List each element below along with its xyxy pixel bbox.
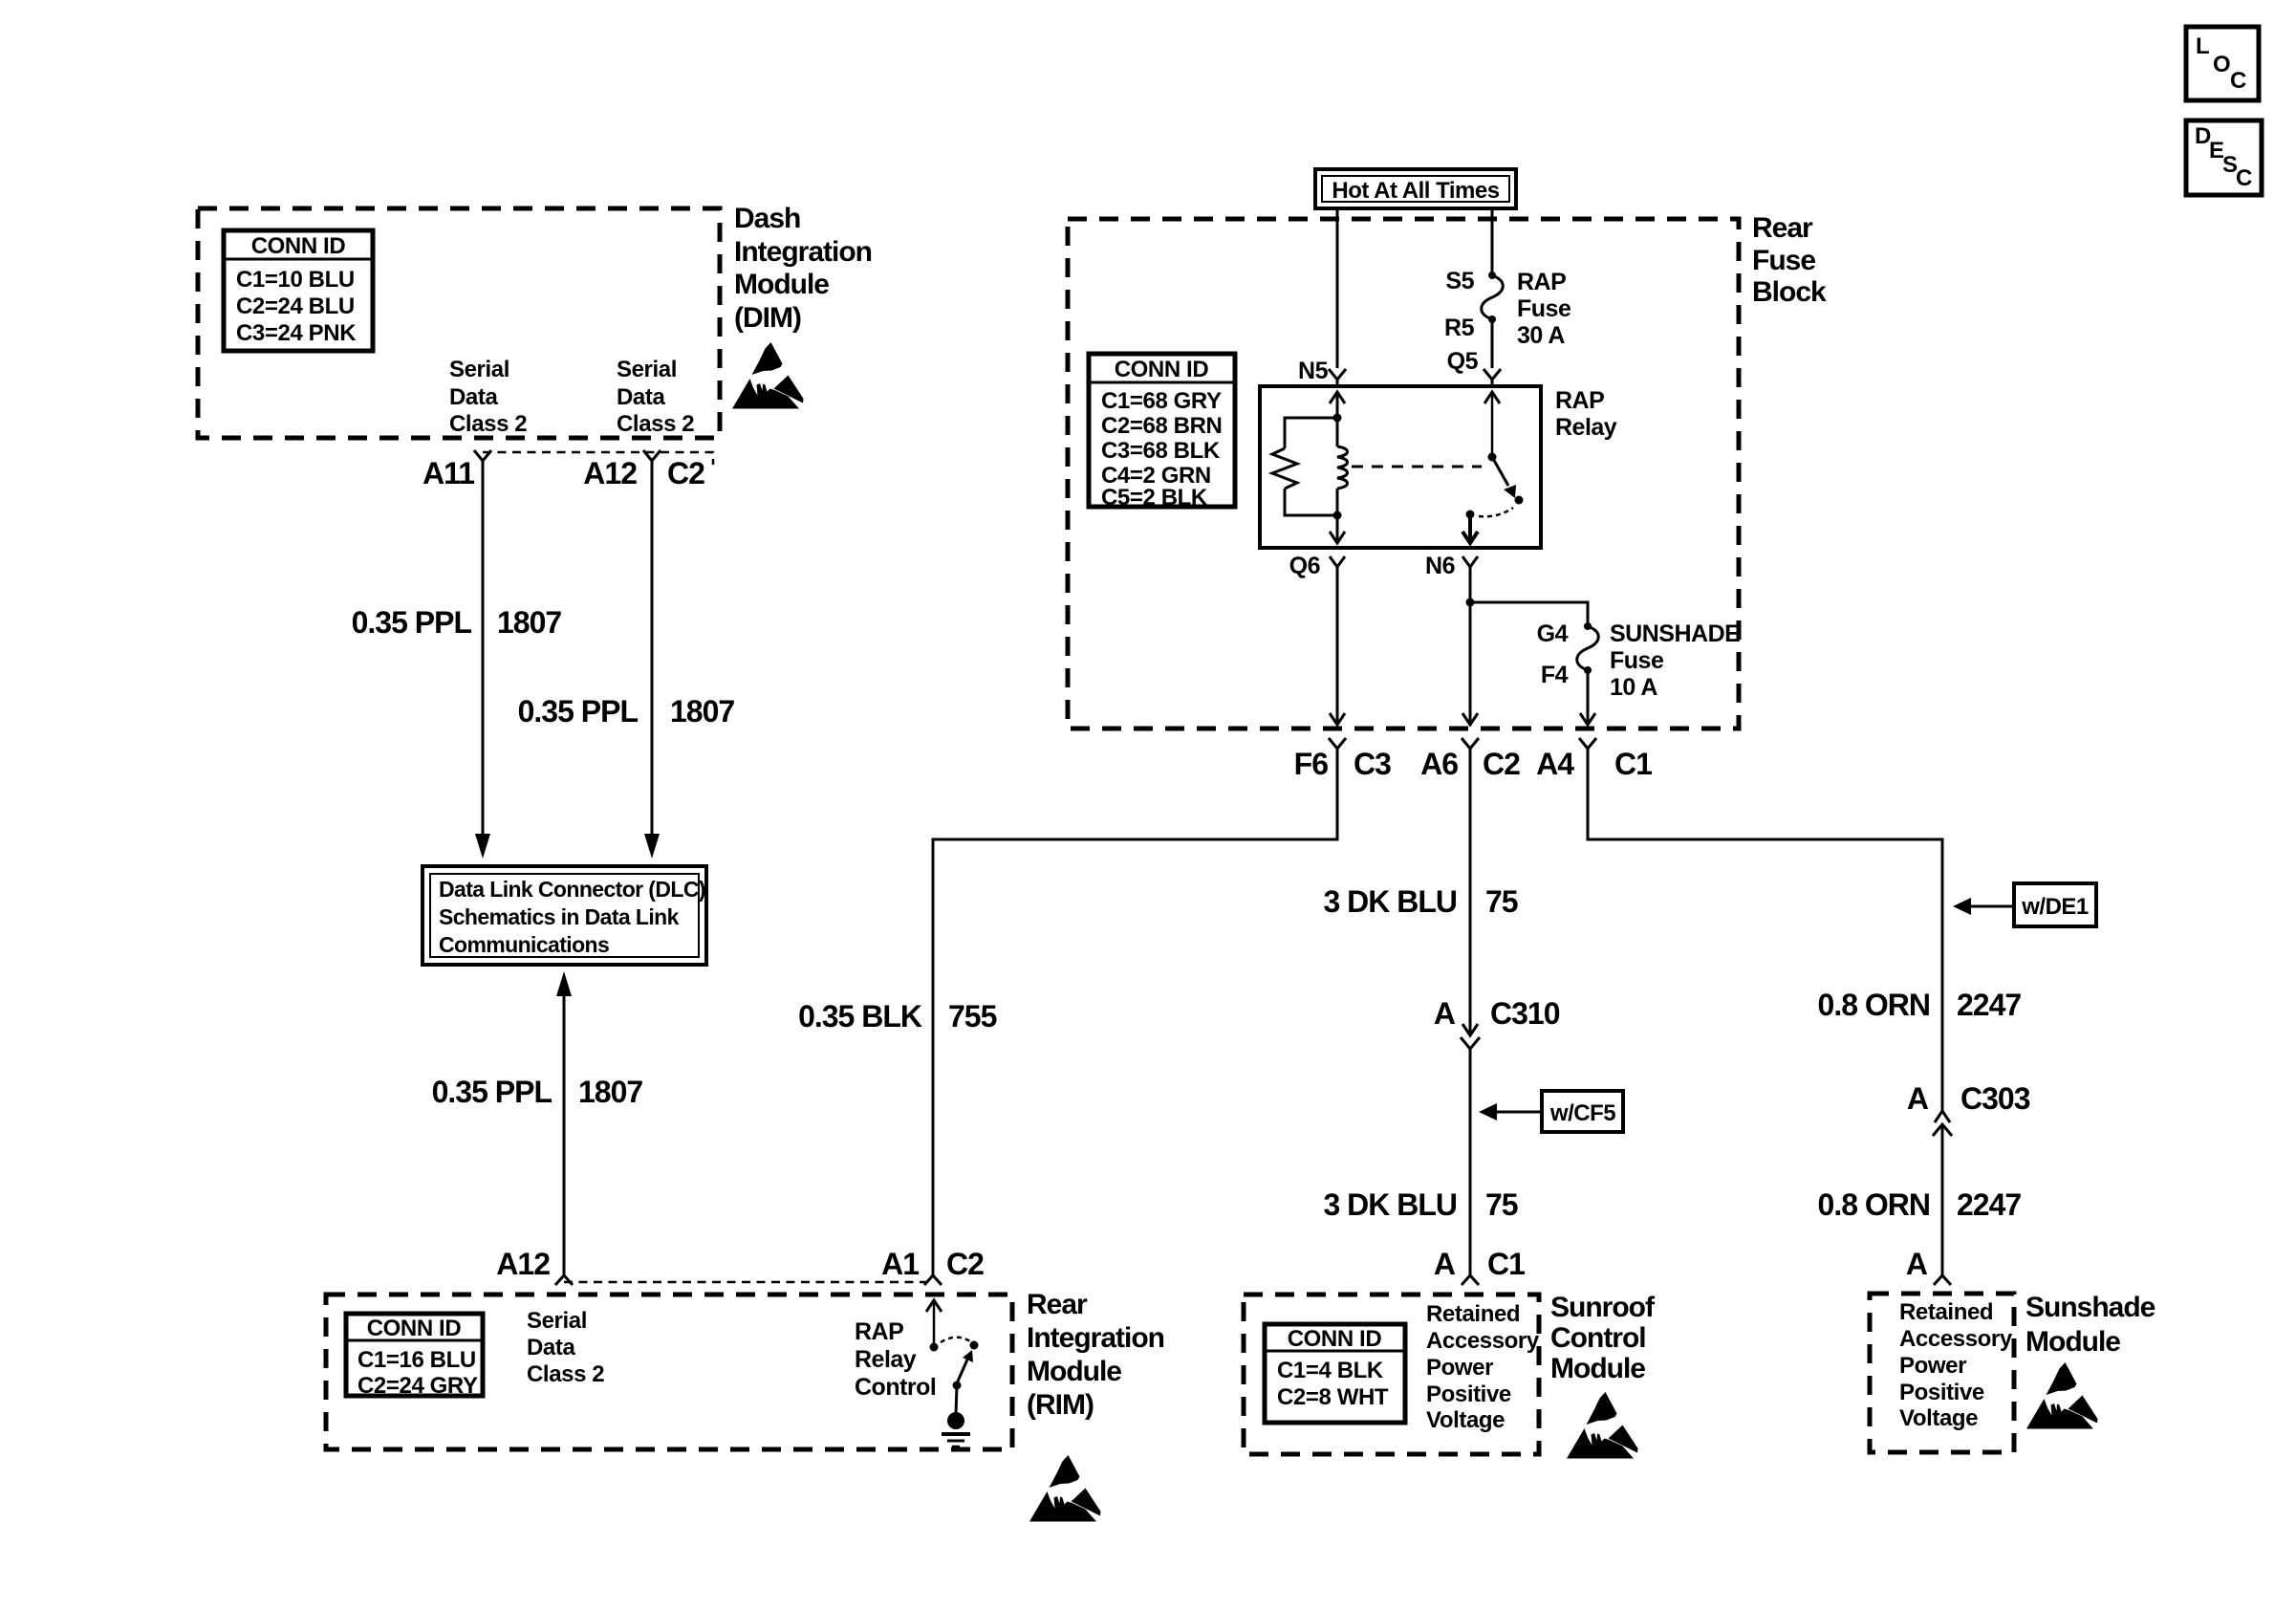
svg-text:N5: N5 (1298, 358, 1329, 384)
svg-text:Fuse: Fuse (1752, 245, 1815, 276)
svg-text:(RIM): (RIM) (1027, 1389, 1094, 1421)
svg-text:Control: Control (1550, 1322, 1646, 1354)
svg-text:C2=68 BRN: C2=68 BRN (1101, 413, 1222, 439)
svg-text:C3=24 PNK: C3=24 PNK (236, 320, 357, 346)
svg-text:A: A (1434, 1247, 1456, 1281)
svg-text:A: A (1906, 1247, 1928, 1281)
svg-text:A12: A12 (496, 1247, 550, 1281)
svg-text:C: C (2236, 165, 2252, 191)
svg-text:N6: N6 (1425, 553, 1455, 579)
svg-text:CONN ID: CONN ID (367, 1316, 462, 1341)
svg-text:C1: C1 (1487, 1247, 1525, 1281)
svg-text:0.35 PPL: 0.35 PPL (352, 605, 472, 640)
svg-text:0.35 PPL: 0.35 PPL (518, 694, 639, 729)
svg-text:Voltage: Voltage (1426, 1407, 1505, 1433)
svg-text:CONN ID: CONN ID (1115, 357, 1209, 382)
svg-text:Integration: Integration (1027, 1322, 1164, 1354)
svg-text:L: L (2196, 33, 2209, 59)
svg-text:A4: A4 (1536, 747, 1574, 781)
svg-text:F6: F6 (1294, 747, 1329, 781)
svg-text:Voltage: Voltage (1899, 1405, 1978, 1431)
svg-text:A: A (1907, 1081, 1929, 1116)
svg-text:2247: 2247 (1957, 1187, 2021, 1222)
svg-text:A12: A12 (583, 456, 637, 490)
svg-text:0.35 BLK: 0.35 BLK (798, 999, 922, 1033)
svg-text:Schematics in Data Link: Schematics in Data Link (439, 904, 680, 929)
svg-text:R5: R5 (1444, 315, 1475, 341)
svg-text:1807: 1807 (497, 605, 561, 640)
svg-text:C1: C1 (1614, 747, 1652, 781)
svg-text:C2: C2 (667, 456, 704, 490)
svg-text:Hot At All Times: Hot At All Times (1332, 178, 1499, 204)
svg-text:0.8 ORN: 0.8 ORN (1818, 988, 1930, 1022)
svg-text:RAP: RAP (1517, 269, 1566, 295)
svg-text:C310: C310 (1490, 996, 1560, 1031)
svg-text:A6: A6 (1420, 747, 1458, 781)
svg-text:Rear: Rear (1752, 212, 1813, 244)
svg-text:3 DK BLU: 3 DK BLU (1323, 1187, 1457, 1222)
svg-text:Retained: Retained (1899, 1299, 1993, 1325)
svg-text:(DIM): (DIM) (734, 302, 801, 334)
svg-text:C1=10 BLU: C1=10 BLU (236, 267, 355, 293)
svg-text:2247: 2247 (1957, 988, 2021, 1022)
svg-text:1807: 1807 (670, 694, 734, 729)
svg-text:Relay: Relay (1555, 414, 1617, 441)
svg-text:RAP: RAP (1555, 387, 1604, 414)
svg-text:Communications: Communications (439, 932, 609, 957)
svg-text:Accessory: Accessory (1899, 1326, 2013, 1352)
svg-text:C1=68 GRY: C1=68 GRY (1101, 388, 1222, 414)
svg-text:3 DK BLU: 3 DK BLU (1323, 884, 1457, 919)
svg-text:C3: C3 (1354, 747, 1391, 781)
svg-text:Serial: Serial (449, 357, 509, 382)
svg-text:Block: Block (1752, 276, 1827, 308)
svg-text:Control: Control (855, 1374, 936, 1401)
svg-text:Retained: Retained (1426, 1301, 1520, 1327)
svg-text:75: 75 (1485, 884, 1518, 919)
svg-text:A1: A1 (881, 1247, 919, 1281)
svg-text:Dash: Dash (734, 203, 800, 234)
svg-text:Integration: Integration (734, 236, 872, 268)
svg-text:Fuse: Fuse (1610, 647, 1664, 674)
svg-text:Data: Data (617, 384, 665, 410)
svg-text:S5: S5 (1445, 268, 1474, 294)
svg-text:755: 755 (948, 999, 997, 1033)
svg-text:Module: Module (1027, 1356, 1121, 1387)
svg-text:C1=4 BLK: C1=4 BLK (1277, 1358, 1384, 1383)
svg-text:Q6: Q6 (1289, 553, 1320, 579)
svg-text:Class 2: Class 2 (449, 411, 527, 437)
svg-text:C: C (2230, 68, 2246, 94)
svg-text:CONN ID: CONN ID (1288, 1326, 1382, 1352)
svg-text:Sunroof: Sunroof (1550, 1292, 1656, 1323)
svg-text:w/CF5: w/CF5 (1549, 1100, 1615, 1126)
svg-text:Positive: Positive (1899, 1380, 1984, 1405)
svg-text:Positive: Positive (1426, 1382, 1511, 1407)
svg-text:Power: Power (1899, 1353, 1966, 1379)
svg-text:Data: Data (449, 384, 498, 410)
svg-text:A: A (1434, 996, 1456, 1031)
svg-text:C303: C303 (1960, 1081, 2030, 1116)
svg-text:C1=16 BLU: C1=16 BLU (357, 1347, 476, 1373)
svg-text:Module: Module (734, 269, 829, 300)
svg-text:SUNSHADE: SUNSHADE (1610, 620, 1740, 647)
svg-text:C5=2 BLK: C5=2 BLK (1101, 485, 1208, 511)
svg-text:0.35 PPL: 0.35 PPL (432, 1075, 552, 1109)
svg-text:Module: Module (1550, 1353, 1645, 1384)
svg-text:Data Link Connector (DLC): Data Link Connector (DLC) (439, 877, 705, 902)
svg-text:Sunshade: Sunshade (2025, 1292, 2155, 1323)
svg-text:Class 2: Class 2 (527, 1361, 604, 1387)
svg-text:C2: C2 (1483, 747, 1520, 781)
svg-text:10 A: 10 A (1610, 674, 1657, 701)
svg-text:Accessory: Accessory (1426, 1328, 1540, 1354)
svg-text:Rear: Rear (1027, 1289, 1088, 1320)
svg-text:Class 2: Class 2 (617, 411, 694, 437)
svg-text:Module: Module (2025, 1326, 2120, 1358)
svg-text:1807: 1807 (578, 1075, 642, 1109)
svg-text:C2: C2 (946, 1247, 984, 1281)
svg-text:Serial: Serial (527, 1308, 587, 1334)
svg-text:Power: Power (1426, 1355, 1493, 1381)
svg-text:Fuse: Fuse (1517, 295, 1571, 322)
svg-text:Q5: Q5 (1447, 348, 1479, 375)
svg-text:C2=24 BLU: C2=24 BLU (236, 294, 355, 319)
svg-text:RAP: RAP (855, 1318, 903, 1345)
svg-text:CONN ID: CONN ID (251, 233, 346, 259)
svg-text:75: 75 (1485, 1187, 1518, 1222)
svg-text:w/DE1: w/DE1 (2021, 894, 2089, 920)
svg-text:C3=68 BLK: C3=68 BLK (1101, 438, 1221, 464)
svg-text:C2=8 WHT: C2=8 WHT (1277, 1384, 1389, 1410)
svg-text:G4: G4 (1537, 620, 1569, 647)
svg-text:F4: F4 (1541, 662, 1569, 688)
svg-text:A11: A11 (422, 456, 474, 490)
svg-text:Serial: Serial (617, 357, 677, 382)
svg-text:O: O (2213, 52, 2230, 77)
svg-text:0.8 ORN: 0.8 ORN (1818, 1187, 1930, 1222)
svg-text:Relay: Relay (855, 1346, 917, 1373)
svg-text:30 A: 30 A (1517, 322, 1565, 349)
svg-text:C2=24 GRY: C2=24 GRY (357, 1373, 478, 1399)
svg-text:Data: Data (527, 1335, 575, 1360)
